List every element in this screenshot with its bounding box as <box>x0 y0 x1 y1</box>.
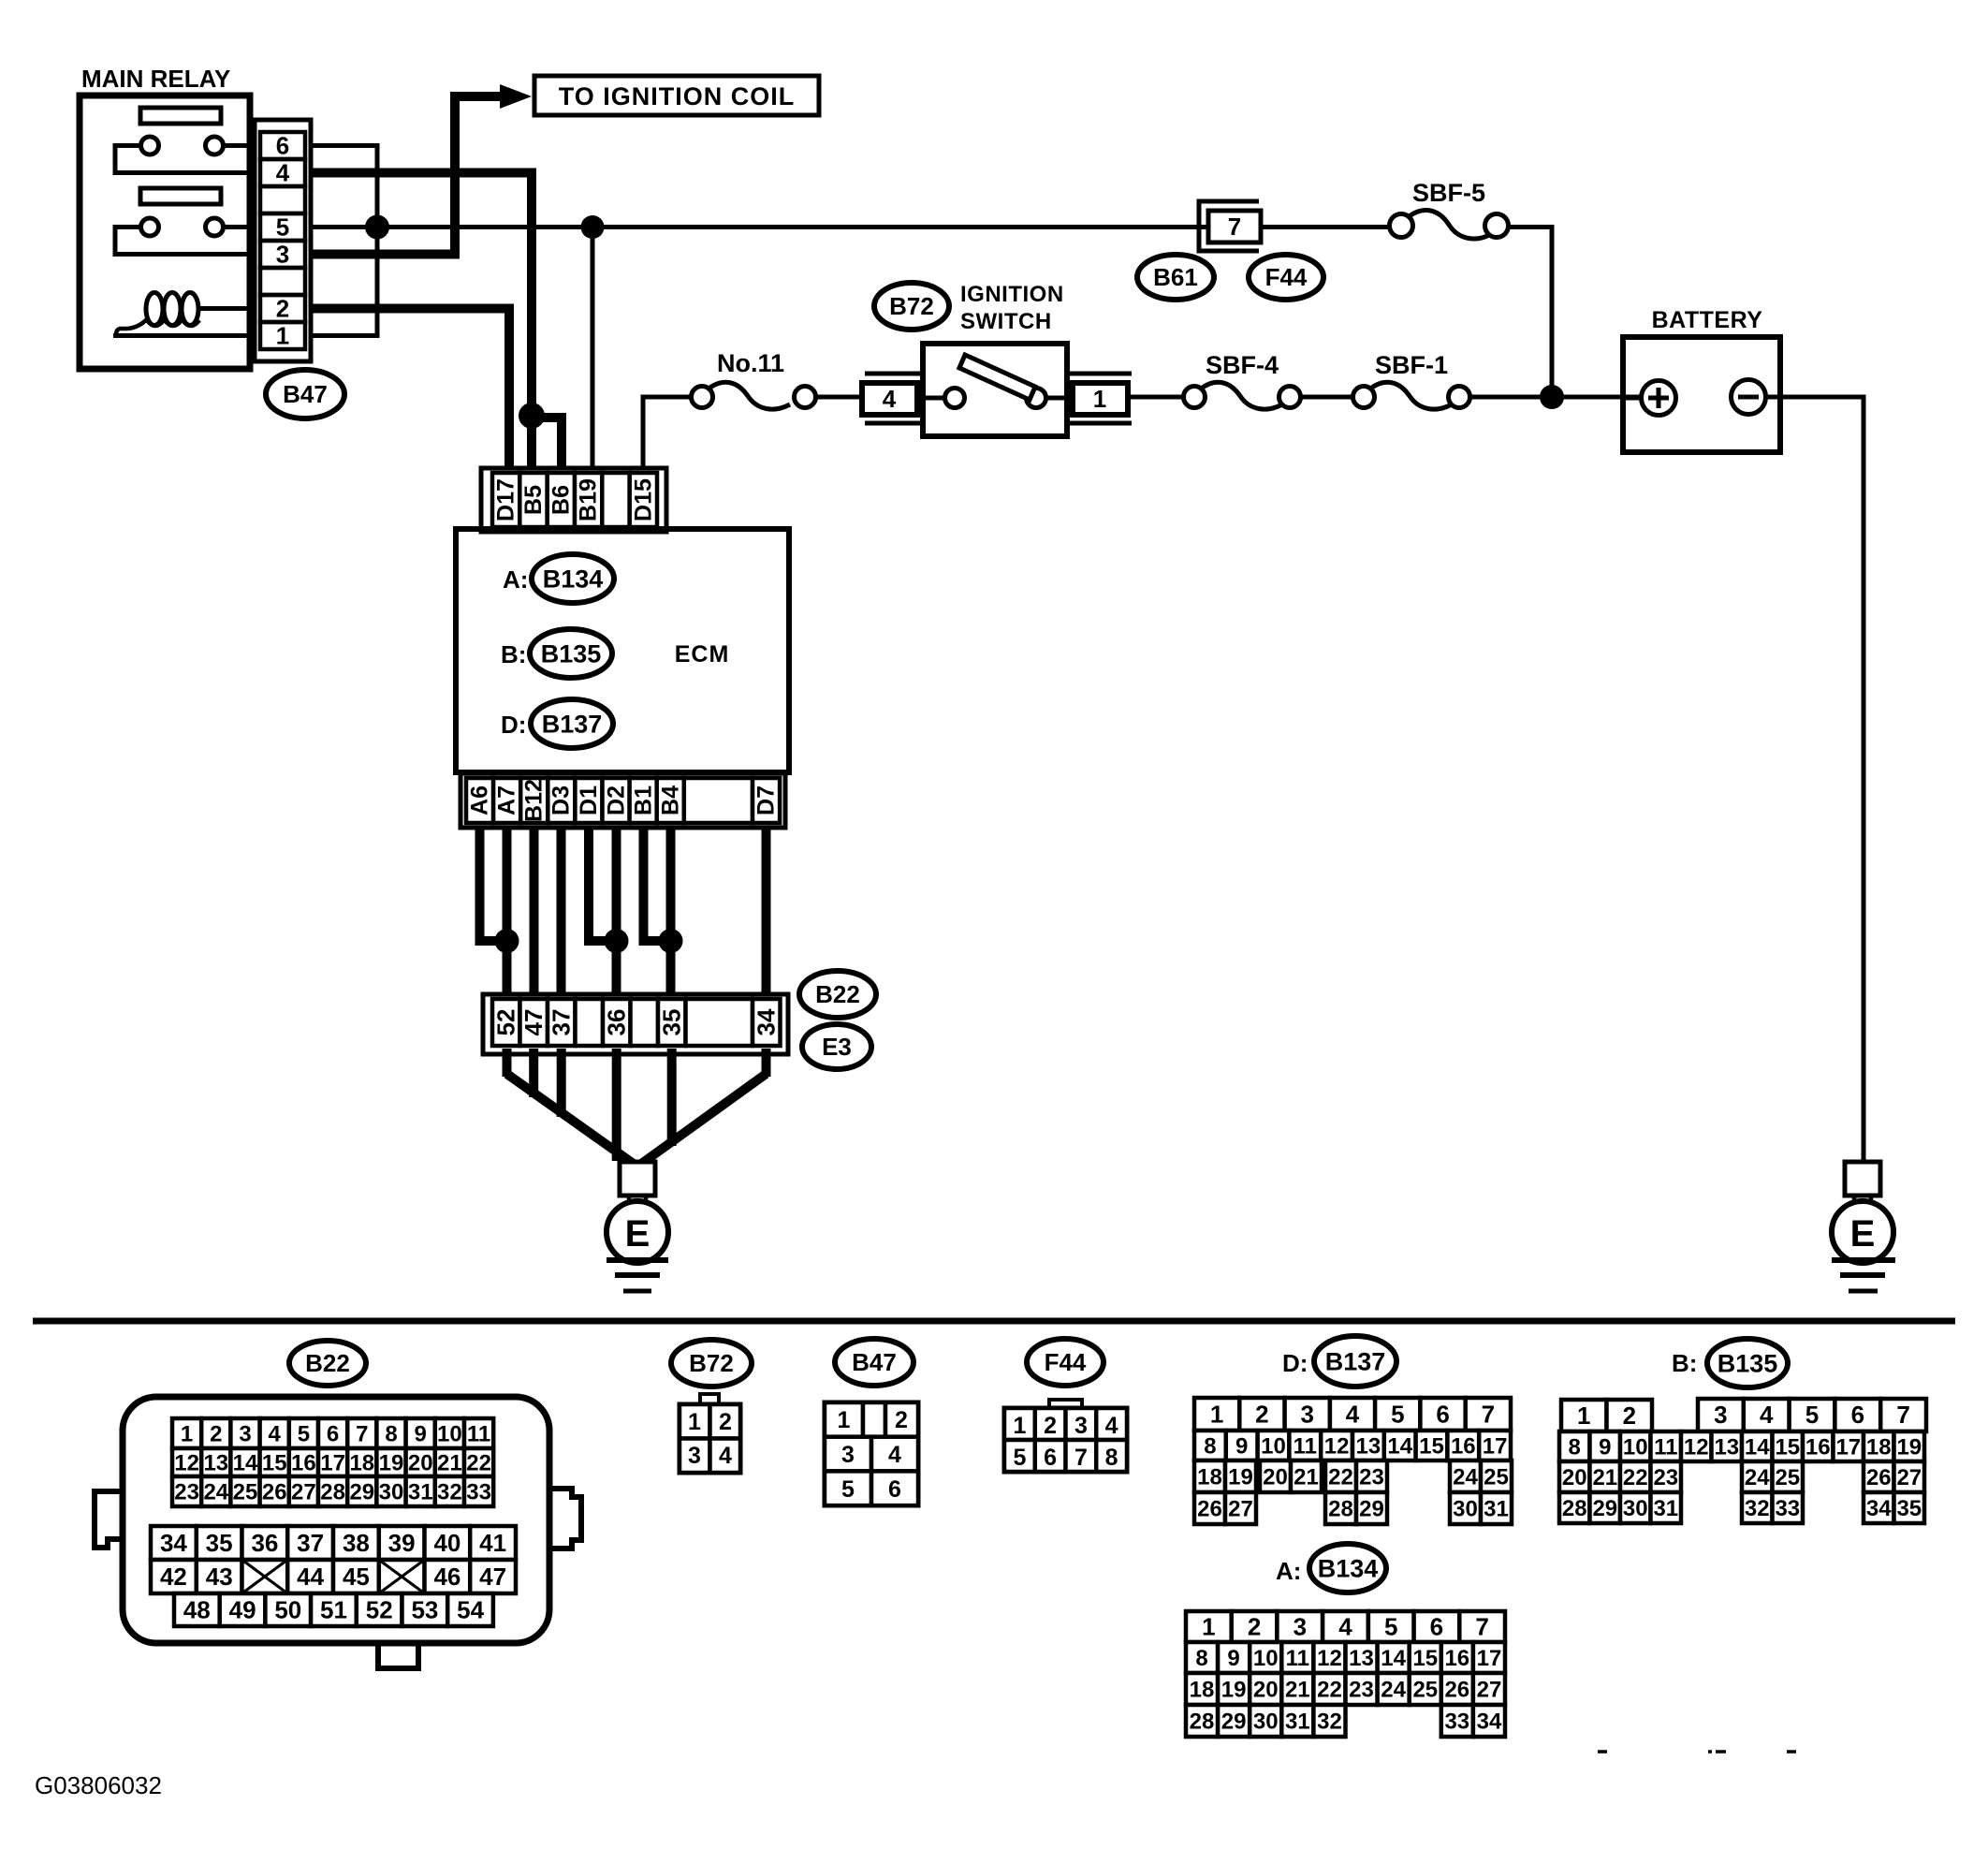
svg-text:26: 26 <box>262 1479 287 1504</box>
svg-text:12: 12 <box>174 1450 199 1475</box>
wire relay pin2 to ECM D17 (thick) <box>312 309 509 478</box>
svg-text:2: 2 <box>210 1421 222 1446</box>
relay connector pin 1 <box>260 322 305 350</box>
B135 pin 2 <box>1607 1400 1653 1431</box>
B47 pin 3 <box>825 1437 871 1472</box>
svg-text:3: 3 <box>1294 1613 1307 1641</box>
B134 pin 18 <box>1186 1673 1218 1705</box>
svg-text:10: 10 <box>437 1421 462 1446</box>
svg-text:20: 20 <box>1263 1464 1288 1490</box>
F44 pin 8 <box>1096 1440 1127 1472</box>
fuse SBF-5 <box>1390 211 1509 239</box>
B134 pin 1 <box>1186 1611 1232 1642</box>
B135 pin 25 <box>1773 1461 1804 1492</box>
svg-text:B5: B5 <box>520 485 547 515</box>
B137 pin 20 <box>1260 1460 1291 1492</box>
svg-text:52: 52 <box>366 1596 393 1624</box>
svg-text:3: 3 <box>841 1442 855 1468</box>
svg-text:52: 52 <box>492 1009 520 1036</box>
svg-text:37: 37 <box>548 1009 576 1036</box>
ground E left connector box <box>620 1162 655 1196</box>
svg-text:B22: B22 <box>305 1349 350 1377</box>
svg-text:32: 32 <box>1745 1496 1770 1521</box>
svg-text:27: 27 <box>1228 1496 1253 1521</box>
wire branch to ECM B19 <box>591 227 595 478</box>
ECM connector ref D <box>501 699 613 748</box>
B137 pin 28 <box>1325 1492 1356 1524</box>
svg-text:B137: B137 <box>1325 1347 1386 1375</box>
svg-text:SWITCH: SWITCH <box>960 309 1052 334</box>
svg-text:30: 30 <box>1253 1709 1279 1734</box>
svg-text:5: 5 <box>1391 1401 1404 1429</box>
svg-text:6: 6 <box>1436 1401 1449 1429</box>
relay connector blank cell <box>260 186 305 213</box>
ECM pin D2 <box>603 778 630 823</box>
ignition switch label <box>960 282 1064 334</box>
stray mark 3 <box>1716 1750 1726 1754</box>
B134 pin 10 <box>1250 1642 1281 1673</box>
svg-text:17: 17 <box>1477 1646 1502 1671</box>
junction pin5 bus / pin6 loop <box>365 215 389 240</box>
connector B22 shell <box>95 1397 581 1668</box>
svg-text:9: 9 <box>1599 1434 1611 1460</box>
svg-text:5: 5 <box>1384 1613 1397 1641</box>
relay switch 1 wiring <box>115 146 250 173</box>
svg-text:17: 17 <box>1483 1433 1508 1459</box>
svg-text:20: 20 <box>1562 1465 1587 1490</box>
B135 pin 15 <box>1773 1431 1804 1461</box>
svg-text:30: 30 <box>379 1479 404 1504</box>
B134 pin 33 <box>1441 1705 1473 1737</box>
svg-text:44: 44 <box>297 1563 324 1591</box>
svg-text:B137: B137 <box>542 710 603 738</box>
svg-text:35: 35 <box>1896 1496 1922 1521</box>
svg-text:2: 2 <box>1623 1402 1636 1430</box>
svg-text:4: 4 <box>276 159 290 187</box>
svg-text:3: 3 <box>276 241 289 269</box>
ECM pin D3 <box>548 778 575 823</box>
B135 pin 17 <box>1834 1431 1864 1461</box>
B135 pin 11 <box>1651 1431 1682 1461</box>
B22 pin 43 <box>197 1560 242 1593</box>
stray mark 2 <box>1708 1750 1712 1754</box>
ECM pin D1 <box>575 778 602 823</box>
stray mark 1 <box>1598 1750 1607 1754</box>
B22 pin 20 <box>406 1448 435 1476</box>
B135 pin 26 <box>1864 1461 1894 1492</box>
svg-text:34: 34 <box>160 1529 187 1557</box>
B137 pin 23 <box>1356 1460 1387 1492</box>
svg-text:B6: B6 <box>548 485 574 515</box>
ECM pin D15 <box>630 473 657 527</box>
B22 pin 12 <box>172 1448 201 1476</box>
to ignition coil box <box>534 76 819 115</box>
B137 pin 25 <box>1481 1460 1512 1492</box>
B134 pin 26 <box>1441 1673 1473 1705</box>
svg-text:49: 49 <box>229 1596 256 1624</box>
B137 pin 3 <box>1285 1398 1330 1431</box>
B134 pin 34 <box>1473 1705 1505 1737</box>
wire ECM B1 down <box>644 805 671 941</box>
label SBF-1 <box>1375 351 1448 379</box>
ECM pin B19 <box>575 473 602 527</box>
svg-text:16: 16 <box>1451 1433 1476 1459</box>
svg-text:11: 11 <box>1286 1646 1309 1671</box>
B137 pin 14 <box>1384 1431 1416 1460</box>
svg-text:6: 6 <box>327 1421 339 1446</box>
svg-text:25: 25 <box>1775 1465 1800 1490</box>
B135 pin 4 <box>1744 1399 1790 1431</box>
svg-text:5: 5 <box>841 1476 855 1503</box>
ECM top blank cell <box>602 473 629 527</box>
svg-text:2: 2 <box>1248 1613 1261 1641</box>
wire ECM D3 to pin 37 <box>557 805 566 1002</box>
svg-text:4: 4 <box>888 1442 901 1468</box>
svg-text:A:: A: <box>503 565 528 594</box>
F44 pin 3 <box>1066 1408 1097 1440</box>
svg-text:5: 5 <box>1013 1445 1026 1471</box>
B137 pin 9 <box>1226 1431 1258 1460</box>
label B22 pinout <box>289 1341 366 1386</box>
svg-text:18: 18 <box>1866 1434 1892 1460</box>
B22 pin 34 <box>151 1526 197 1560</box>
svg-text:34: 34 <box>1477 1709 1502 1734</box>
relay switch 2 contacts <box>141 218 224 236</box>
B22 pin 49 <box>220 1593 266 1626</box>
svg-text:D1: D1 <box>576 785 602 815</box>
B22 pin 42 <box>151 1560 197 1593</box>
svg-text:32: 32 <box>437 1479 462 1504</box>
svg-text:46: 46 <box>433 1563 460 1591</box>
svg-text:8: 8 <box>1569 1434 1581 1460</box>
svg-text:9: 9 <box>1227 1646 1239 1671</box>
ignition switch contacts <box>923 389 1073 408</box>
B137 pin 24 <box>1450 1460 1481 1492</box>
chassis blank cell a <box>576 999 604 1046</box>
svg-text:22: 22 <box>1317 1677 1342 1702</box>
B135 pin 6 <box>1835 1399 1880 1431</box>
label No.11 <box>717 349 784 377</box>
svg-text:37: 37 <box>297 1529 324 1557</box>
B137 pin 13 <box>1352 1431 1384 1460</box>
B134 pin 9 <box>1218 1642 1250 1673</box>
B22 pin 6 <box>318 1418 347 1448</box>
B22 pin 5 <box>289 1418 318 1448</box>
label E3 circuit <box>802 1024 871 1069</box>
svg-text:3: 3 <box>688 1443 701 1469</box>
svg-text:D:: D: <box>1282 1349 1308 1377</box>
B135 pin 8 <box>1559 1431 1590 1461</box>
B22 pin 16 <box>289 1448 318 1476</box>
svg-text:B61: B61 <box>1153 263 1198 291</box>
svg-text:B22: B22 <box>815 980 860 1008</box>
B72 pin 2 <box>710 1404 741 1439</box>
label F44 pinout <box>1027 1339 1104 1386</box>
B137 pin 11 <box>1289 1431 1321 1460</box>
relay switch 2 wiring <box>115 227 250 255</box>
B22 pin 29 <box>347 1476 376 1506</box>
relay switch 1 contacts <box>141 137 224 154</box>
B135 pin 3 <box>1698 1399 1744 1431</box>
relay connector pin 5 <box>260 213 305 242</box>
wire SBF-5 to battery feed <box>1508 227 1552 398</box>
svg-text:E: E <box>1850 1213 1876 1255</box>
svg-text:18: 18 <box>1197 1464 1222 1490</box>
svg-text:28: 28 <box>1328 1496 1353 1521</box>
svg-text:6: 6 <box>276 132 289 160</box>
svg-text:D3: D3 <box>548 785 575 815</box>
wire relay pin3 to ignition coil (thick) <box>312 96 502 255</box>
B134 pin 6 <box>1414 1611 1460 1642</box>
label D B137 pinout <box>1282 1336 1396 1387</box>
svg-text:32: 32 <box>1317 1709 1342 1734</box>
B135 pin 20 <box>1559 1461 1590 1492</box>
svg-text:ECM: ECM <box>675 641 730 668</box>
ECM connector ref B <box>501 629 612 678</box>
svg-text:B72: B72 <box>889 292 934 320</box>
separator line <box>33 1318 1955 1325</box>
B135 pin 10 <box>1620 1431 1651 1461</box>
B22 pin 23 <box>172 1476 201 1506</box>
ignition switch B72 box <box>923 344 1067 436</box>
svg-text:24: 24 <box>203 1479 228 1504</box>
ground bus right diagonal <box>637 1074 767 1167</box>
B135 pin 32 <box>1742 1492 1773 1523</box>
svg-text:1: 1 <box>838 1407 851 1433</box>
svg-text:B1: B1 <box>631 785 657 815</box>
svg-text:27: 27 <box>291 1479 316 1504</box>
svg-text:28: 28 <box>1190 1709 1215 1734</box>
svg-text:42: 42 <box>160 1563 187 1591</box>
svg-text:35: 35 <box>206 1529 233 1557</box>
B22 pin 28 <box>318 1476 347 1506</box>
svg-text:23: 23 <box>1653 1465 1678 1490</box>
svg-text:13: 13 <box>1349 1646 1374 1671</box>
svg-text:23: 23 <box>174 1479 199 1504</box>
svg-text:13: 13 <box>203 1450 228 1475</box>
B134 pin 21 <box>1281 1673 1313 1705</box>
junction ECM B5/B6 branch <box>519 403 545 429</box>
svg-text:20: 20 <box>408 1450 433 1475</box>
svg-text:1: 1 <box>688 1409 701 1435</box>
svg-text:45: 45 <box>343 1563 370 1591</box>
svg-text:B:: B: <box>1672 1349 1697 1377</box>
svg-text:B12: B12 <box>521 779 548 822</box>
B22 pin 47 <box>470 1560 516 1593</box>
svg-text:2: 2 <box>1044 1413 1057 1439</box>
svg-text:No.11: No.11 <box>717 349 784 377</box>
ground symbol right <box>1832 1260 1895 1291</box>
relay connector pin 2 <box>260 295 305 323</box>
svg-text:3: 3 <box>239 1421 251 1446</box>
relay connector pin 3 <box>260 241 305 269</box>
svg-text:24: 24 <box>1453 1464 1478 1490</box>
B134 pin 30 <box>1250 1705 1281 1737</box>
svg-text:4: 4 <box>1760 1401 1774 1429</box>
ground E left neck <box>629 1196 646 1208</box>
svg-text:D2: D2 <box>604 785 630 815</box>
relay switch 2 contact bar <box>140 188 221 204</box>
to ignition coil text <box>559 82 796 110</box>
ECM pin B4 <box>657 778 684 823</box>
svg-text:51: 51 <box>320 1596 347 1624</box>
B135 pin 34 <box>1864 1492 1894 1523</box>
B137 pin 30 <box>1450 1492 1481 1524</box>
B134 pin 11 <box>1281 1642 1313 1673</box>
wire pin34 drop <box>762 1049 771 1077</box>
B72 pin 4 <box>710 1439 741 1474</box>
B134 pin 32 <box>1313 1705 1345 1737</box>
arrowhead to ignition coil <box>500 84 532 109</box>
wire relay pin4 to ECM B5 (thick) <box>312 173 532 478</box>
svg-text:3: 3 <box>1714 1401 1727 1429</box>
svg-text:21: 21 <box>437 1450 462 1475</box>
svg-text:38: 38 <box>343 1529 370 1557</box>
svg-text:15: 15 <box>262 1450 287 1475</box>
B22 pin 25 <box>230 1476 259 1506</box>
ECM pin B5 <box>519 473 547 527</box>
svg-text:8: 8 <box>1105 1445 1118 1471</box>
B22 pin 4 <box>260 1418 289 1448</box>
ignition switch terminal 1 <box>1070 374 1132 423</box>
B134 pin 16 <box>1441 1642 1473 1673</box>
svg-text:4: 4 <box>883 385 897 413</box>
svg-text:1: 1 <box>276 322 289 350</box>
label B22 circuit <box>799 971 876 1018</box>
svg-text:23: 23 <box>1349 1677 1374 1702</box>
B137 pin 7 <box>1466 1398 1511 1431</box>
F44 pin 1 <box>1004 1408 1035 1440</box>
svg-text:B135: B135 <box>1718 1349 1778 1377</box>
B137 pin 2 <box>1239 1398 1284 1431</box>
B137 pin 12 <box>1321 1431 1352 1460</box>
svg-text:12: 12 <box>1317 1646 1342 1671</box>
wire fuse7 to SBF-5 <box>1261 225 1391 229</box>
svg-text:8: 8 <box>385 1421 397 1446</box>
svg-text:6: 6 <box>1430 1613 1443 1641</box>
svg-text:B47: B47 <box>283 380 328 408</box>
B134 pin 22 <box>1313 1673 1345 1705</box>
svg-text:MAIN RELAY: MAIN RELAY <box>81 65 230 93</box>
B22 pin 10 <box>435 1418 464 1448</box>
wire relay pin6 to pin1 loop <box>312 146 377 336</box>
wire ignition switch to SBF-4 <box>1128 395 1184 400</box>
fuse SBF-1 <box>1353 382 1470 409</box>
svg-text:B47: B47 <box>852 1348 897 1376</box>
B47 keyway <box>863 1402 885 1437</box>
svg-text:28: 28 <box>320 1479 345 1504</box>
svg-text:36: 36 <box>603 1009 631 1036</box>
ECM bottom blank cell <box>684 778 753 823</box>
svg-text:15: 15 <box>1419 1433 1444 1459</box>
B137 pin 5 <box>1375 1398 1420 1431</box>
svg-text:4: 4 <box>1346 1401 1360 1429</box>
B135 pin 24 <box>1742 1461 1773 1492</box>
svg-text:30: 30 <box>1623 1496 1648 1521</box>
B22 pin 54 <box>447 1593 493 1626</box>
B135 pin 22 <box>1620 1461 1651 1492</box>
B22 pin 3 <box>230 1418 259 1448</box>
main relay label <box>81 65 230 93</box>
wire SBF-4 to SBF-1 <box>1300 395 1353 400</box>
svg-text:10: 10 <box>1261 1433 1286 1459</box>
svg-text:D17: D17 <box>493 478 519 521</box>
chassis pin 34 <box>753 999 781 1046</box>
svg-text:14: 14 <box>233 1450 258 1475</box>
svg-text:21: 21 <box>1592 1465 1617 1490</box>
B22 crossed-out cavity <box>379 1560 425 1593</box>
svg-text:33: 33 <box>466 1479 491 1504</box>
B134 pin 12 <box>1313 1642 1345 1673</box>
B134 pin 23 <box>1346 1673 1378 1705</box>
B134 pin 25 <box>1410 1673 1441 1705</box>
svg-text:3: 3 <box>1300 1401 1313 1429</box>
svg-text:3: 3 <box>1074 1413 1088 1439</box>
B137 pin 22 <box>1325 1460 1356 1492</box>
svg-text:4: 4 <box>719 1443 732 1469</box>
svg-text:6: 6 <box>888 1476 901 1503</box>
B22 pin 46 <box>425 1560 471 1593</box>
battery negative terminal <box>1732 380 1766 415</box>
B135 pin 23 <box>1651 1461 1682 1492</box>
svg-text:A:: A: <box>1276 1557 1301 1585</box>
ECM pin D7 <box>753 778 780 823</box>
svg-text:B:: B: <box>501 640 526 668</box>
svg-text:11: 11 <box>467 1421 490 1446</box>
B22 pin 8 <box>376 1418 405 1448</box>
fuse SBF-4 <box>1184 382 1301 409</box>
svg-text:16: 16 <box>1444 1646 1469 1671</box>
svg-text:17: 17 <box>320 1450 345 1475</box>
B135 pin 21 <box>1590 1461 1621 1492</box>
svg-text:25: 25 <box>233 1479 258 1504</box>
connector F44 shell <box>1004 1400 1127 1472</box>
wire No.11 to ignition switch pin 4 <box>815 395 862 400</box>
B134 pin 29 <box>1218 1705 1250 1737</box>
B137 pin 26 <box>1194 1492 1225 1524</box>
svg-text:18: 18 <box>1190 1677 1215 1702</box>
B135 pin 7 <box>1880 1399 1926 1431</box>
svg-text:7: 7 <box>1896 1401 1909 1429</box>
chassis pin 37 <box>548 999 576 1046</box>
B137 pin 8 <box>1194 1431 1226 1460</box>
svg-text:5: 5 <box>1805 1401 1819 1429</box>
relay connector blank cell 2 <box>260 268 305 295</box>
B22 pin 51 <box>311 1593 357 1626</box>
B47 pin 2 <box>885 1402 918 1437</box>
wire ECM D15 riser to fuse No.11 <box>643 397 702 477</box>
B47 pin 1 <box>825 1402 863 1437</box>
svg-text:9: 9 <box>415 1421 427 1446</box>
junction D1/D2 <box>605 929 629 953</box>
F44 pin 7 <box>1066 1440 1097 1472</box>
ECM pin B12 <box>520 778 548 823</box>
label B B135 pinout <box>1672 1339 1788 1387</box>
svg-text:D15: D15 <box>630 478 656 521</box>
svg-text:13: 13 <box>1356 1433 1381 1459</box>
svg-text:10: 10 <box>1253 1646 1279 1671</box>
junction battery feed <box>1540 385 1564 409</box>
wire pin35 drop <box>667 1049 677 1146</box>
B22 pin 31 <box>406 1476 435 1506</box>
svg-text:10: 10 <box>1623 1434 1648 1460</box>
svg-text:F44: F44 <box>1045 1348 1087 1376</box>
B22 pin 22 <box>464 1448 493 1476</box>
svg-text:7: 7 <box>1475 1613 1488 1641</box>
svg-text:40: 40 <box>433 1529 460 1557</box>
B135 pin 14 <box>1742 1431 1773 1461</box>
svg-text:SBF-1: SBF-1 <box>1375 351 1448 379</box>
